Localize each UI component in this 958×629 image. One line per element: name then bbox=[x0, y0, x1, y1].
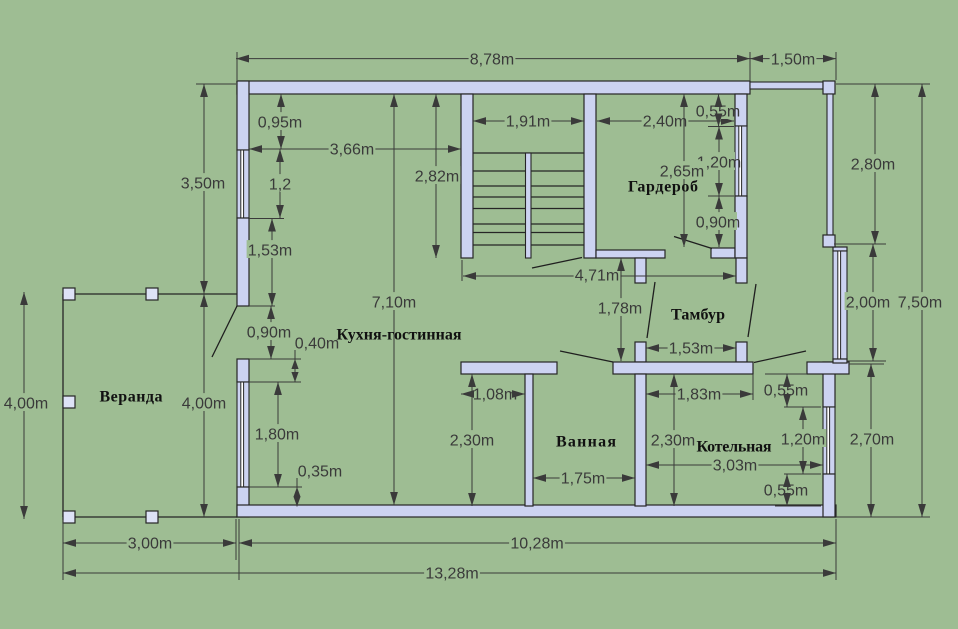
dimension 1,75m bathroom bbox=[533, 477, 635, 479]
svg-text:3,50m: 3,50m bbox=[181, 176, 225, 193]
dimension 3,03m boiler bbox=[646, 464, 823, 466]
stairs tread 6 bbox=[473, 232, 584, 234]
svg-text:4,71m: 4,71m bbox=[575, 268, 619, 285]
ext right 0.55 bottom bbox=[775, 505, 821, 507]
dimension 0,35m stub bbox=[296, 478, 298, 487]
window W5 in wardrobe right wall bbox=[735, 126, 747, 196]
veranda outline top bbox=[63, 293, 237, 295]
svg-text:1,91m: 1,91m bbox=[506, 114, 550, 131]
dimension 4,71m bbox=[463, 275, 736, 277]
dimension 10,28m bottom bbox=[239, 542, 836, 544]
door leaf: tambour left bbox=[647, 282, 655, 338]
ext wardrobe win bottom bbox=[708, 195, 734, 197]
ext wardrobe win top bbox=[708, 126, 734, 128]
ext pier top bbox=[249, 358, 301, 360]
svg-text:1,83m: 1,83m bbox=[677, 387, 721, 404]
ext bottom wall-left down bbox=[235, 519, 237, 560]
porch corner post top-right bbox=[823, 81, 835, 94]
svg-text:1,08m: 1,08m bbox=[473, 387, 517, 404]
dimension 2,30m boiler bbox=[673, 374, 675, 506]
wall: tambour right upper bbox=[736, 258, 747, 283]
wall: bathroom-boiler divider bbox=[635, 374, 646, 506]
svg-text:0,40m: 0,40m bbox=[295, 336, 339, 353]
ext right bottom horizontal bbox=[836, 516, 930, 518]
wall: wardrobe right upper bbox=[735, 94, 747, 126]
door leaf: porch exit bbox=[754, 351, 806, 363]
window W4 in east wall bbox=[833, 251, 847, 359]
veranda outline left bbox=[62, 294, 64, 517]
ext window1 bottom bbox=[249, 218, 284, 220]
svg-text:2,82m: 2,82m bbox=[415, 169, 459, 186]
veranda post top-mid bbox=[146, 288, 158, 300]
wall: left exterior pier bbox=[237, 359, 249, 382]
svg-text:1,53m: 1,53m bbox=[248, 243, 292, 260]
dimension 1,91m stairs bbox=[473, 120, 584, 122]
dimension 0,55m right bottom bbox=[786, 474, 788, 506]
wall: right exterior lower bbox=[823, 474, 835, 517]
svg-text:Ванная: Ванная bbox=[556, 434, 616, 451]
ext veranda door top bbox=[249, 305, 275, 307]
dimension 3,00m bottom bbox=[63, 542, 236, 544]
wall: tambour left jamb bbox=[635, 342, 646, 362]
svg-text:2,70m: 2,70m bbox=[850, 432, 894, 449]
svg-text:4,00m: 4,00m bbox=[182, 396, 226, 413]
svg-text:7,50m: 7,50m bbox=[898, 295, 942, 312]
dimension 2,82m stairs bbox=[435, 94, 437, 258]
ext porch right up bbox=[835, 52, 837, 80]
dimension 0,35m pier bbox=[293, 487, 300, 497]
wall: bathroom left bbox=[525, 374, 533, 506]
door leaf: kitchen-tambour bbox=[560, 351, 613, 362]
window W1 in left wall bbox=[237, 150, 249, 218]
svg-text:0,95m: 0,95m bbox=[258, 115, 302, 132]
dimension 0,95m bbox=[280, 94, 282, 149]
stairs tread 1 bbox=[473, 170, 584, 172]
wall: staircase right / wardrobe left bbox=[584, 94, 596, 258]
svg-text:Котельная: Котельная bbox=[697, 439, 772, 456]
door leaf: wardrobe bbox=[674, 237, 712, 249]
stairs tread 3 bbox=[473, 196, 584, 198]
svg-text:Гардероб: Гардероб bbox=[628, 179, 698, 196]
wall: tambour bottom / bath top bbox=[613, 362, 753, 374]
dimension 1,80m window bbox=[277, 382, 279, 487]
svg-text:1,80m: 1,80m bbox=[255, 427, 299, 444]
porch post right bbox=[823, 235, 835, 247]
svg-text:3,00m: 3,00m bbox=[128, 536, 172, 553]
wall: left exterior upper bbox=[237, 81, 249, 150]
ext top-left corner up bbox=[236, 52, 238, 80]
svg-text:2,80m: 2,80m bbox=[851, 157, 895, 174]
dimension 4,00m far left bbox=[23, 292, 25, 519]
ext right 2.70 top bbox=[849, 363, 884, 365]
dimension 0,90m wardrobe door bbox=[718, 196, 720, 247]
ext top-left horizontal bbox=[196, 83, 236, 85]
wall: wardrobe bottom left piece bbox=[596, 250, 665, 258]
wall: wardrobe bottom right piece bbox=[711, 248, 735, 258]
window W2 in left wall bbox=[237, 382, 249, 487]
wall: right exterior upper pier bbox=[823, 362, 835, 407]
wall: east wall of tambour top piece bbox=[833, 247, 847, 251]
veranda post bottom-left bbox=[63, 511, 75, 523]
dimension 2,30m bathroom bbox=[471, 374, 473, 506]
stairs tread 4 bbox=[473, 208, 584, 210]
ext right top horizontal bbox=[836, 83, 930, 85]
svg-text:10,28m: 10,28m bbox=[510, 536, 563, 553]
door leaf: stairs bbox=[532, 258, 582, 269]
dimension 1,53m tambour bbox=[646, 347, 736, 349]
ext right 2.80 bottom bbox=[834, 243, 886, 245]
wall: east wall of tambour bottom piece bbox=[833, 359, 847, 363]
dimension 7,50m right bbox=[921, 84, 923, 517]
svg-text:1,53m: 1,53m bbox=[669, 341, 713, 358]
ext pier bottom bbox=[249, 381, 301, 383]
svg-text:Веранда: Веранда bbox=[100, 389, 163, 406]
svg-text:1,50m: 1,50m bbox=[771, 51, 815, 68]
wall: bottom exterior bbox=[237, 505, 836, 517]
veranda post top-left bbox=[63, 288, 75, 300]
dimension 0,55m wardrobe bbox=[718, 94, 720, 127]
dimension 7,10m kitchen bbox=[393, 94, 395, 505]
dimension 4,00m left inner bbox=[203, 294, 205, 517]
svg-text:1,78m: 1,78m bbox=[598, 301, 642, 318]
dimension 1,20m right window bbox=[802, 407, 804, 474]
svg-text:0,90m: 0,90m bbox=[696, 215, 740, 232]
ext bottom-left down bbox=[62, 520, 64, 580]
svg-text:Тамбур: Тамбур bbox=[671, 307, 725, 324]
svg-text:2,00m: 2,00m bbox=[846, 295, 890, 312]
svg-text:3,03m: 3,03m bbox=[713, 458, 757, 475]
svg-text:4,00m: 4,00m bbox=[4, 396, 48, 413]
dimension 1,50m top bbox=[750, 58, 836, 60]
dimension 2,00m right bbox=[872, 244, 874, 361]
dimension 1,2 window bbox=[279, 149, 281, 218]
dimension 13,28m bottom bbox=[63, 572, 836, 574]
wall: top exterior bbox=[237, 81, 750, 94]
stairs centre divider bbox=[526, 153, 532, 258]
dimension 0,40m stub bbox=[294, 350, 296, 359]
svg-text:2,30m: 2,30m bbox=[450, 433, 494, 450]
stairs tread 5 bbox=[473, 223, 584, 225]
ext bottom-right down bbox=[835, 519, 837, 580]
svg-text:0,90m: 0,90m bbox=[247, 325, 291, 342]
ext window2 bottom bbox=[249, 486, 302, 488]
ext right 0.55 top bbox=[765, 373, 807, 375]
door leaf: veranda entrance bbox=[212, 306, 237, 357]
door leaf: tambour right bbox=[748, 284, 756, 337]
svg-text:1,20m: 1,20m bbox=[781, 432, 825, 449]
wall: tambour left upper bbox=[635, 258, 646, 283]
ext right 2.00 bottom bbox=[847, 360, 886, 362]
svg-text:1,2: 1,2 bbox=[269, 177, 291, 194]
dimension 1,53m left bbox=[271, 219, 273, 307]
wall: left exterior middle bbox=[237, 218, 249, 306]
ext 4.71 left bbox=[461, 260, 463, 281]
stairs tread 7 bbox=[473, 244, 584, 246]
dimension 2,65m wardrobe bbox=[683, 94, 685, 247]
dimension 2,70m right bbox=[870, 364, 872, 517]
dimension 8,78m top bbox=[236, 58, 750, 60]
svg-text:2,40m: 2,40m bbox=[643, 114, 687, 131]
veranda post mid-left bbox=[63, 396, 75, 408]
dimension 1,83m boiler bbox=[646, 393, 753, 395]
dimension 3,66m bbox=[249, 148, 461, 150]
dimension 1,78m tambour bbox=[620, 258, 622, 361]
ext 1.83 right bbox=[752, 374, 754, 400]
veranda post bottom-mid bbox=[146, 511, 158, 523]
dimension 1,08m kitchen bar bbox=[461, 393, 525, 395]
ext bottom wall-left2 down bbox=[238, 519, 240, 580]
stairs landing edge bbox=[473, 152, 584, 154]
ext right win top bbox=[784, 406, 821, 408]
dimension 0,40m pier bbox=[291, 359, 298, 369]
porch rail right bbox=[827, 94, 833, 235]
wall: kitchen partition bar bbox=[461, 362, 557, 374]
svg-text:7,10m: 7,10m bbox=[372, 295, 416, 312]
wall: wardrobe right lower bbox=[735, 196, 747, 258]
dimension 2,40m wardrobe bbox=[597, 120, 734, 122]
svg-text:2,30m: 2,30m bbox=[651, 433, 695, 450]
dimension 1,20m wardrobe window bbox=[718, 127, 720, 197]
svg-text:13,28m: 13,28m bbox=[425, 566, 478, 583]
stairs tread 2 bbox=[473, 185, 584, 187]
svg-text:3,66m: 3,66m bbox=[330, 142, 374, 159]
wall: left exterior lower bbox=[237, 487, 249, 517]
ext right win bottom bbox=[784, 473, 821, 475]
window W3 in right wall bbox=[823, 407, 835, 474]
svg-text:Кухня-гостинная: Кухня-гостинная bbox=[337, 327, 462, 344]
dimension 3,50m left bbox=[203, 84, 205, 294]
dimension 0,90m left bbox=[270, 306, 272, 359]
wall: tambour right jamb bbox=[736, 342, 747, 362]
dimension 0,55m right top bbox=[786, 374, 788, 407]
wall: east step wall bbox=[807, 362, 849, 374]
wall: staircase left bbox=[461, 94, 473, 258]
svg-text:0,35m: 0,35m bbox=[298, 464, 342, 481]
veranda outline bottom bbox=[63, 516, 237, 518]
porch rail top bbox=[750, 82, 823, 89]
dimension 2,80m right bbox=[874, 84, 876, 244]
ext top wall right up bbox=[749, 52, 751, 81]
svg-text:1,75m: 1,75m bbox=[561, 471, 605, 488]
svg-text:8,78m: 8,78m bbox=[470, 51, 514, 68]
